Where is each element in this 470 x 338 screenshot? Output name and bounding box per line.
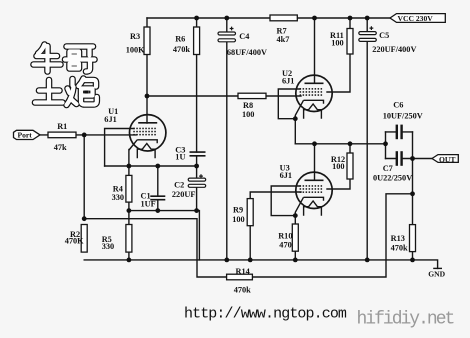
svg-text:OUT: OUT xyxy=(439,155,455,164)
svg-text:470k: 470k xyxy=(391,243,408,252)
svg-text:68UF/400V: 68UF/400V xyxy=(227,48,267,57)
svg-text:1UF: 1UF xyxy=(141,199,156,208)
svg-text:470k: 470k xyxy=(173,45,190,54)
svg-text:470: 470 xyxy=(279,240,291,249)
svg-text:R6: R6 xyxy=(175,35,185,44)
svg-text:6J1: 6J1 xyxy=(104,115,116,124)
svg-text:R3: R3 xyxy=(130,32,140,41)
svg-text:hifidiy.net: hifidiy.net xyxy=(357,310,454,330)
svg-text:6J1: 6J1 xyxy=(282,76,294,85)
svg-text:http://www.ngtop.com: http://www.ngtop.com xyxy=(184,306,347,323)
svg-text:C7: C7 xyxy=(383,164,393,173)
svg-text:10UF/250V: 10UF/250V xyxy=(383,111,423,120)
svg-text:R13: R13 xyxy=(391,234,405,243)
svg-text:R1: R1 xyxy=(57,122,67,131)
svg-text:100: 100 xyxy=(331,38,343,47)
svg-text:220UF: 220UF xyxy=(172,190,196,199)
svg-text:4k7: 4k7 xyxy=(277,35,290,44)
svg-text:1U: 1U xyxy=(175,153,185,162)
svg-text:100: 100 xyxy=(242,110,254,119)
svg-text:470k: 470k xyxy=(234,286,251,295)
svg-text:100: 100 xyxy=(332,162,344,171)
svg-text:330: 330 xyxy=(112,193,124,202)
svg-text:R10: R10 xyxy=(278,231,292,240)
svg-text:6J1: 6J1 xyxy=(280,171,292,180)
svg-text:47k: 47k xyxy=(54,143,67,152)
svg-text:Port: Port xyxy=(18,131,33,140)
svg-text:330: 330 xyxy=(102,242,114,251)
svg-text:470K: 470K xyxy=(65,237,84,246)
svg-text:C5: C5 xyxy=(379,31,389,40)
svg-text:R9: R9 xyxy=(233,205,243,214)
svg-text:R8: R8 xyxy=(243,101,253,110)
svg-text:VCC 230V: VCC 230V xyxy=(398,14,434,23)
svg-text:100: 100 xyxy=(232,215,244,224)
svg-text:100K: 100K xyxy=(126,45,145,54)
svg-text:GND: GND xyxy=(428,269,445,278)
svg-text:220UF/400V: 220UF/400V xyxy=(372,45,416,54)
svg-text:C6: C6 xyxy=(393,100,403,109)
svg-text:C4: C4 xyxy=(239,32,249,41)
svg-text:C2: C2 xyxy=(174,180,184,189)
svg-text:R14: R14 xyxy=(236,267,250,276)
svg-text:0U22/250V: 0U22/250V xyxy=(373,174,412,183)
